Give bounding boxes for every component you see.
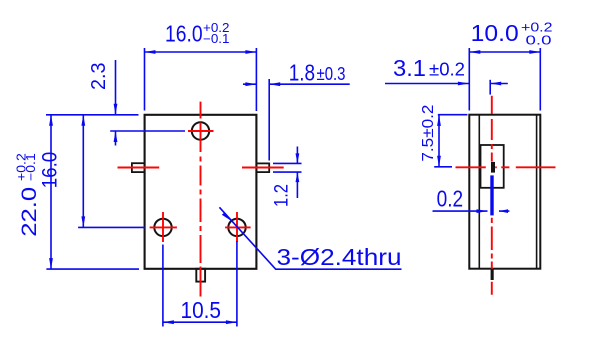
bottom edge extension line (left) — [46, 268, 139, 270]
svg-text:7.5±0.2: 7.5±0.2 — [420, 104, 437, 161]
dimension 1.2: extension lines — [273, 163, 302, 172]
dimension 16.0 vertical: arrows — [81, 115, 85, 228]
svg-text:1.8: 1.8 — [289, 60, 315, 86]
side view step rectangle — [481, 145, 504, 188]
dimension 10.0: arrows — [469, 50, 540, 54]
dimension 0.2: arrows — [477, 209, 509, 213]
hole lower-left — [154, 219, 171, 236]
left side tab — [132, 163, 145, 172]
dimension 16.0 width: extension lines — [145, 48, 257, 111]
svg-text:10.5: 10.5 — [181, 297, 222, 323]
dimension 1.8±0.3: arrows — [245, 82, 280, 86]
dimension 22.0 height: dim line — [50, 115, 52, 269]
svg-text:22.0: 22.0 — [18, 187, 41, 237]
svg-text:10.0: 10.0 — [471, 20, 519, 46]
dimension 3.1±0.2: center tick extension — [489, 80, 491, 95]
svg-text:1.2: 1.2 — [272, 184, 293, 207]
svg-text:2.3: 2.3 — [88, 63, 110, 91]
dimension 7.5±0.2: arrows — [437, 115, 441, 167]
dimension 1.8±0.3: dim line / underline — [243, 83, 350, 85]
hole lower-right — [228, 219, 245, 236]
dimension 3.1±0.2: dim line / underline — [385, 83, 508, 85]
dimension 10.0: dim line — [469, 51, 540, 53]
svg-text:0.2: 0.2 — [437, 186, 464, 212]
centerline horizontal top hole — [188, 130, 214, 132]
dimension 10.5: arrows — [163, 320, 237, 324]
centerline vertical lower-left hole — [162, 212, 164, 242]
svg-text:+0.2: +0.2 — [521, 21, 553, 35]
centerline right tab — [242, 167, 284, 169]
dimension 10.0: text — [471, 20, 553, 48]
leader 3-Ø2.4thru: arrow — [222, 212, 232, 221]
leader 3-Ø2.4thru: diagonal line — [219, 207, 401, 269]
side view lead cross bar (black) — [491, 162, 495, 173]
svg-text:0.0: 0.0 — [526, 34, 552, 48]
dimension 16.0 width: dim line — [145, 51, 257, 53]
dimension 22.0: arrows — [49, 115, 53, 269]
lower holes center extension line (left) — [78, 226, 145, 228]
centerline vertical front view — [200, 102, 202, 297]
centerline vertical lower-right hole — [236, 212, 238, 242]
dimension 0.2: dim line / underline — [433, 210, 510, 212]
svg-text:±0.2: ±0.2 — [429, 60, 465, 80]
side view bottom pin — [491, 269, 494, 280]
top edge extension line (left) — [46, 114, 139, 116]
centerline left tab — [118, 167, 160, 169]
centerline horizontal lower-right hole — [225, 226, 251, 228]
side view inner right line — [536, 115, 538, 269]
side view body outline — [469, 115, 540, 269]
bottom center tab — [196, 269, 205, 282]
dimension 1.8±0.3: text — [289, 60, 346, 86]
centerline horizontal lower-left hole — [150, 226, 177, 228]
centerline vertical side view — [491, 96, 493, 295]
hole top — [192, 122, 209, 139]
top hole center extension line — [110, 130, 185, 132]
dimension 22.0: text (rotated) — [15, 153, 41, 237]
dimension 1.2: dim lines with outside arrows — [296, 147, 298, 199]
svg-text:±0.3: ±0.3 — [317, 64, 346, 84]
dimension 10.5: dim line — [163, 321, 237, 323]
front view body outline — [145, 115, 257, 269]
dimension 10.0: extension lines — [469, 48, 540, 111]
dimension 3.1±0.2: arrows — [458, 82, 501, 86]
svg-text:−0.1: −0.1 — [203, 32, 230, 46]
dimension 16.0 width: text — [165, 21, 230, 47]
dimension 7.5±0.2: extension lines — [434, 115, 467, 167]
dimension 16.0 width: arrows — [145, 50, 257, 54]
dimension 3.1±0.2: text — [393, 55, 465, 81]
right side tab — [256, 163, 269, 172]
side view inner left line — [478, 115, 480, 269]
svg-text:3.1: 3.1 — [393, 55, 426, 81]
svg-text:3-Ø2.4thru: 3-Ø2.4thru — [277, 244, 402, 270]
dimension 10.5: extension lines — [163, 241, 237, 327]
dimension 7.5±0.2: dim line — [438, 115, 440, 167]
centerline horizontal side view — [456, 166, 556, 168]
dimension 1.8±0.3: extension line from tab outer edge — [268, 79, 270, 161]
dimension 16.0 vertical: dim line — [82, 115, 84, 228]
svg-text:16.0: 16.0 — [165, 21, 203, 47]
svg-text:16.0: 16.0 — [39, 152, 62, 189]
dimension 2.3: dim lines with outside arrows — [115, 60, 117, 146]
side view lead (blue thick bar) — [490, 175, 493, 215]
svg-text:−0.1: −0.1 — [24, 153, 38, 181]
